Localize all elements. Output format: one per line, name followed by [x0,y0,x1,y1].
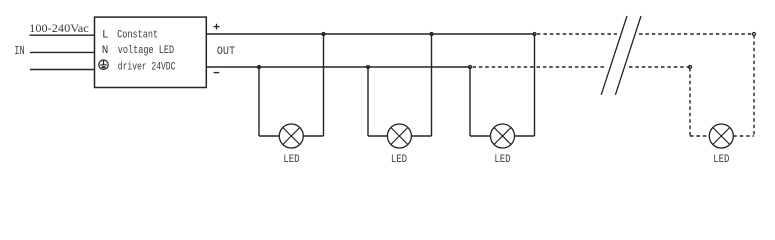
lamp LED4 right wire dashed [733,35,754,136]
svg-text:voltage LED: voltage LED [118,45,175,57]
lamp LED1 [279,124,303,148]
lamp LED3 [491,124,515,148]
wire -rail dashed seg1 [473,66,608,68]
svg-text:LED: LED [494,154,511,166]
lamp LED3 right wire [515,34,535,136]
label minus [214,72,220,74]
lamp LED3 left wire [470,67,491,136]
wire L input [30,34,95,36]
break mark slash2 [615,16,641,95]
svg-text:LED: LED [391,154,408,166]
svg-text:L: L [102,30,109,42]
wire +rail dashed seg1 [537,33,617,35]
lamp LED1 right wire [303,34,323,136]
svg-text:N: N [102,45,109,57]
svg-text:driver 24VDC: driver 24VDC [118,61,176,73]
wire +rail solid [207,33,535,35]
wire -rail dashed seg2 [629,66,690,68]
wire N input [30,51,95,53]
lamp LED2 left wire [368,67,387,136]
earth symbol [99,60,108,69]
junction dot node6 [533,33,536,36]
wire +rail dashed seg2 [639,33,754,35]
lamp LED4 [709,124,733,148]
svg-text:LED: LED [283,154,300,166]
junction dot node4 [430,33,433,36]
junction dot node2 [322,33,325,36]
lamp LED4 left wire dashed [690,68,709,136]
driver box U1 [95,17,207,87]
svg-text:Constant: Constant [117,30,158,42]
junction dot node5 [469,66,472,69]
svg-text:100-240Vac: 100-240Vac [29,22,88,35]
svg-text:LED: LED [713,154,730,166]
junction dot node1 [258,66,261,69]
break mark slash1 [601,16,627,95]
svg-text:IN: IN [14,44,24,58]
wire -rail solid [207,66,470,68]
junction dot node8 [753,33,756,36]
label plus [214,24,220,30]
junction dot node3 [367,66,370,69]
lamp LED1 left wire [259,67,279,136]
lamp LED2 [387,124,411,148]
junction dot node7 [689,66,692,69]
wire PE input [30,69,95,71]
svg-text:OUT: OUT [217,46,236,58]
lamp LED2 right wire [411,34,431,136]
